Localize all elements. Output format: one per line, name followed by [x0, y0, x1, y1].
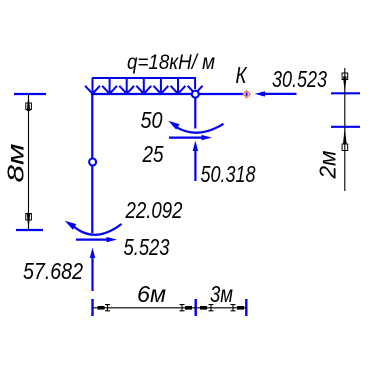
left dimension 8m [3, 94, 47, 230]
blue extension tick bottom [331, 126, 360, 128]
moment arc 50 (at right stub) [141, 107, 224, 133]
node K marker (red diamond) [243, 91, 250, 98]
svg-text:50.318: 50.318 [201, 161, 256, 187]
force 57.682 (vertical arrow up at column bottom) [23, 248, 95, 292]
force 30.523 (arrow pointing left at K) [255, 66, 328, 97]
blue extension tick middle [194, 299, 196, 316]
svg-text:q=18кН/ м: q=18кН/ м [127, 51, 215, 74]
arrow marks left end of 6m [98, 306, 105, 310]
hinge circle at beam-right column joint [192, 91, 199, 98]
svg-text:30.523: 30.523 [272, 66, 327, 92]
svg-text:25: 25 [142, 141, 164, 167]
blue extension tick top [331, 92, 360, 94]
blue extension tick right [245, 299, 247, 316]
arrow marks right end of 3m [237, 306, 244, 310]
arrow down [27, 213, 31, 230]
right column stub [194, 94, 196, 129]
svg-text:8м: 8м [3, 143, 29, 182]
arrow up (below bottom tick) [343, 127, 347, 144]
dimension line [344, 68, 346, 191]
arrow up [27, 95, 31, 112]
svg-text:57.682: 57.682 [23, 258, 83, 284]
force 50.318 (vertical arrow up under stub) [193, 141, 256, 188]
svg-text:5.523: 5.523 [124, 234, 170, 260]
svg-text:6м: 6м [137, 281, 166, 307]
hinge circle on left column [89, 159, 96, 166]
arrow down (above top tick) [343, 77, 347, 94]
svg-text:50: 50 [141, 107, 163, 133]
bottom dimensions 6m and 3m [93, 281, 247, 316]
blue extension tick left [91, 299, 93, 316]
dimension line [93, 307, 247, 309]
svg-text:2м: 2м [315, 150, 341, 179]
arrow marks left end of 3m [200, 306, 207, 310]
svg-text:22.092: 22.092 [125, 197, 183, 223]
left column [91, 94, 93, 233]
blue extension tick top [14, 93, 46, 95]
force 5.523 (horizontal arrow right at column bottom) [76, 234, 170, 260]
svg-text:3м: 3м [210, 281, 233, 307]
blue extension tick bottom [16, 229, 43, 231]
beam (top horizontal member) [91, 93, 243, 95]
distributed load stems and arrowheads [85, 78, 202, 94]
moment arc 22.092 (at column bottom) [65, 197, 183, 235]
arrow marks right end of 6m [185, 306, 192, 310]
right dimension 2m [315, 68, 361, 191]
dimension line [28, 95, 30, 230]
distributed load top line [92, 77, 196, 79]
force 25 (horizontal arrow right) [142, 135, 212, 167]
svg-text:К: К [236, 62, 248, 88]
